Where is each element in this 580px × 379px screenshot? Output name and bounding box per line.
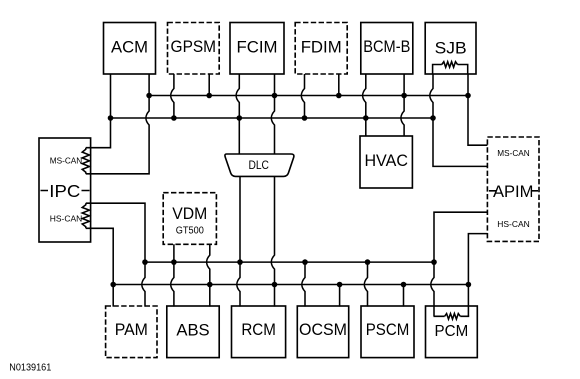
- junction dot bus2 #2: [171, 115, 177, 121]
- junction dot bus4 #3: [272, 282, 278, 288]
- module PCM (with terminating resistor): [426, 306, 478, 358]
- svg-text:HS-CAN: HS-CAN: [497, 219, 530, 229]
- wire OCSM right stub from bus4: [339, 285, 341, 307]
- module IPC: [39, 138, 91, 242]
- svg-text:DLC: DLC: [248, 160, 269, 172]
- junction dot bus3 #4: [302, 259, 308, 265]
- resistor IPC MS-CAN terminator: [82, 148, 89, 174]
- junction dot bus1 #4: [336, 93, 342, 99]
- wire IPC HS-CAN top lead to bus3 and PAM right stub: [86, 203, 145, 306]
- svg-text:MS-CAN: MS-CAN: [497, 148, 530, 158]
- wire HS-CAN bus line 1 (upper): [145, 261, 434, 263]
- module GPSM: [168, 23, 220, 75]
- junction dot bus4 #5: [401, 282, 407, 288]
- module VDM GT500: [163, 193, 216, 245]
- svg-text:PCM: PCM: [435, 323, 469, 340]
- wire MS-CAN bus line 2 (lower): [111, 117, 434, 119]
- junction dot bus3 #3: [237, 259, 243, 265]
- module FDIM: [295, 23, 347, 75]
- svg-text:RCM: RCM: [241, 321, 276, 339]
- svg-text:PSCM: PSCM: [366, 321, 410, 339]
- svg-text:GT500: GT500: [176, 225, 204, 236]
- wire VDM left stub to bus3 crossing bus4 to ABS: [171, 244, 174, 306]
- svg-text:FDIM: FDIM: [301, 38, 342, 57]
- svg-text:OCSM: OCSM: [299, 321, 347, 339]
- wire MS-CAN bus line 1 (upper): [149, 95, 468, 97]
- junction dot bus3 #6: [431, 259, 437, 265]
- wire PSCM left stub from bus3 crossing bus4: [364, 262, 367, 307]
- wire PSCM right stub from bus4: [403, 285, 405, 307]
- svg-text:FCIM: FCIM: [237, 38, 278, 57]
- junction dot bus3 #5: [365, 259, 371, 265]
- wire VDM right stub crossing bus3 to bus4 to ABS: [207, 244, 210, 306]
- wire FDIM left stub crossing bus1 to bus2: [301, 74, 304, 118]
- module PAM: [106, 306, 157, 358]
- svg-text:GPSM: GPSM: [171, 38, 217, 56]
- junction dot bus2 #4: [302, 115, 308, 121]
- junction dot bus1 #6: [465, 93, 471, 99]
- wire OCSM left stub from bus3 crossing bus4: [302, 262, 305, 307]
- junction dot bus2 #5: [363, 115, 369, 121]
- svg-text:SJB: SJB: [435, 38, 467, 57]
- junction dot bus1 #5: [401, 93, 407, 99]
- svg-text:N0139161: N0139161: [9, 362, 51, 373]
- wire BCM-B right stub to bus1 crossing bus2 to HVAC: [401, 74, 404, 136]
- svg-text:ABS: ABS: [176, 321, 209, 340]
- module RCM: [232, 306, 286, 358]
- svg-text:BCM-B: BCM-B: [363, 38, 410, 56]
- wire FDIM right stub to bus1: [338, 74, 340, 96]
- junction dot bus4 #6: [466, 282, 472, 288]
- junction dot bus2 #6: [430, 115, 436, 121]
- wire ACM right stub to bus1, crossing bus2, to IPC MS-CAN bottom lead: [86, 74, 149, 174]
- module ABS: [167, 306, 219, 358]
- svg-text:PAM: PAM: [115, 321, 148, 339]
- module FCIM: [230, 23, 284, 75]
- wire FCIM right stub to bus1 crossing bus2 to DLC: [271, 74, 274, 154]
- junction dot bus1 #3: [272, 93, 278, 99]
- module BCM-B: [361, 23, 413, 75]
- junction dot bus3 #2: [171, 259, 177, 265]
- junction dot bus1 #2: [206, 93, 212, 99]
- wire GPSM left stub crossing bus1 to bus2: [171, 74, 174, 118]
- wire IPC HS-CAN bottom lead to bus4 and PAM left stub: [86, 228, 113, 306]
- resistor IPC HS-CAN terminator: [82, 203, 89, 228]
- wire GPSM right stub to bus1: [208, 74, 210, 96]
- junction dot bus4 #4: [337, 282, 343, 288]
- wire DLC right crossing bus3 to bus4 to RCM: [271, 176, 274, 306]
- wire SJB right lead to bus1 then to APIM MS-CAN upper: [468, 75, 487, 146]
- wire ACM left stub to bus2 and IPC MS-CAN top lead: [86, 74, 111, 148]
- module ACM: [104, 23, 156, 75]
- svg-text:VDM: VDM: [172, 205, 207, 223]
- svg-text:MS-CAN: MS-CAN: [50, 156, 83, 166]
- wire APIM HS-CAN lower lead to bus4 to PCM right: [468, 234, 487, 317]
- junction dot bus3 #1: [142, 259, 148, 265]
- connector DLC: [225, 154, 294, 176]
- junction dot bus1 #1: [146, 93, 152, 99]
- svg-text:IPC: IPC: [49, 181, 80, 201]
- module SJB (with terminating resistor): [425, 23, 476, 75]
- module HVAC: [360, 136, 412, 188]
- wire APIM HS-CAN upper lead to bus3 crossing bus4 to PCM left: [431, 212, 488, 316]
- svg-text:ACM: ACM: [111, 38, 148, 57]
- junction dot bus4 #1: [110, 282, 116, 288]
- wire DLC left to bus3 crossing bus4 to RCM: [237, 176, 240, 306]
- module APIM: [487, 137, 539, 241]
- svg-text:HVAC: HVAC: [364, 152, 408, 170]
- junction dot bus2 #1: [108, 115, 114, 121]
- wire SJB left lead crossing bus1 to bus2 then to APIM MS-CAN lower: [430, 75, 488, 167]
- module PSCM: [361, 306, 414, 358]
- wire HS-CAN bus line 2 (lower): [113, 284, 468, 286]
- svg-text:HS-CAN: HS-CAN: [50, 214, 83, 224]
- wire FCIM left stub to bus2 and DLC: [236, 74, 239, 154]
- wire BCM-B left stub crossing bus1 to bus2 and HVAC: [363, 74, 366, 136]
- junction dot bus4 #2: [207, 282, 213, 288]
- module OCSM: [297, 306, 348, 358]
- svg-text:APIM: APIM: [493, 182, 534, 201]
- junction dot bus2 #3: [237, 115, 243, 121]
